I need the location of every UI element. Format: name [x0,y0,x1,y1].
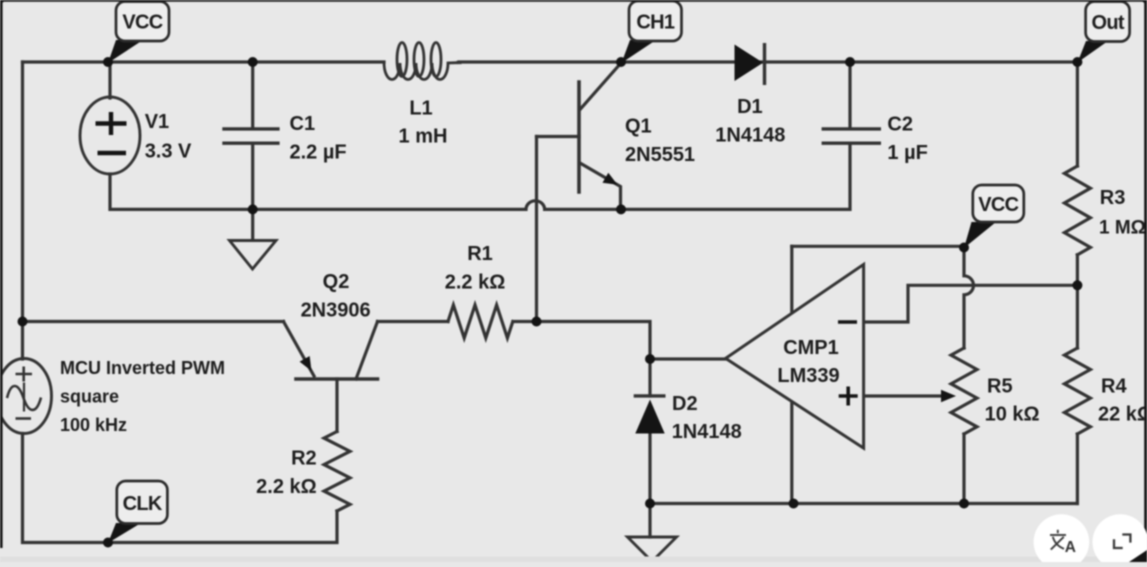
svg-text:1 mH: 1 mH [399,125,448,147]
svg-text:2.2 kΩ: 2.2 kΩ [256,476,317,498]
svg-text:CMP1: CMP1 [783,337,839,359]
svg-text:100 kHz: 100 kHz [60,415,127,435]
svg-text:22 kΩ: 22 kΩ [1098,403,1147,425]
svg-text:10 kΩ: 10 kΩ [985,403,1040,425]
svg-text:R3: R3 [1100,187,1126,209]
svg-text:Q1: Q1 [625,116,652,138]
svg-text:2N3906: 2N3906 [301,299,371,321]
svg-text:1N4148: 1N4148 [672,421,742,443]
svg-text:D2: D2 [672,393,698,415]
svg-text:R1: R1 [467,243,493,265]
svg-text:Q2: Q2 [323,271,350,293]
svg-text:3.3 V: 3.3 V [145,141,192,163]
svg-text:VCC: VCC [122,12,162,34]
svg-text:1 MΩ: 1 MΩ [1099,217,1146,238]
svg-text:V1: V1 [145,111,169,133]
svg-text:2.2 µF: 2.2 µF [290,142,347,164]
svg-text:2N5551: 2N5551 [625,144,695,166]
svg-text:1 µF: 1 µF [887,142,927,164]
svg-text:A: A [1065,539,1076,556]
svg-text:R2: R2 [291,447,317,469]
svg-text:L1: L1 [409,98,432,120]
svg-text:R4: R4 [1101,376,1127,398]
svg-text:LM339: LM339 [777,365,839,387]
svg-text:D1: D1 [737,96,763,118]
svg-text:CH1: CH1 [636,12,674,34]
svg-text:C1: C1 [290,113,316,135]
svg-text:VCC: VCC [978,194,1018,216]
svg-text:C2: C2 [887,114,913,136]
svg-text:1N4148: 1N4148 [715,124,785,146]
svg-text:MCU Inverted PWM: MCU Inverted PWM [60,358,225,378]
svg-text:square: square [60,387,119,407]
svg-text:Out: Out [1092,12,1125,34]
svg-text:CLK: CLK [123,493,163,515]
svg-text:R5: R5 [987,376,1013,398]
svg-text:2.2 kΩ: 2.2 kΩ [445,272,506,294]
